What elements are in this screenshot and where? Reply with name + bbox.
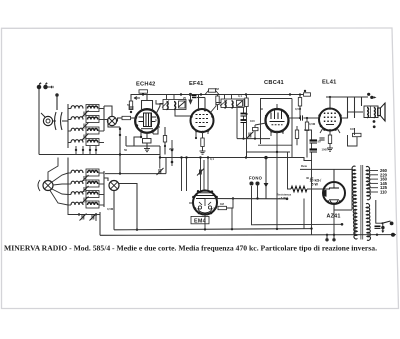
feedback feed wire [288, 152, 292, 189]
antenna terminal A2 [44, 83, 48, 89]
value labels scatter [107, 87, 355, 211]
svg-text:EL41: EL41 [322, 79, 337, 85]
bank2 vertical to mixer [67, 158, 69, 170]
detector trimmer C18 [247, 132, 254, 139]
switch fan wires [48, 158, 68, 206]
svg-text:1M: 1M [220, 202, 225, 206]
mains cap [375, 226, 381, 228]
osc padder resistor R16 [163, 136, 166, 143]
filter wires [300, 130, 352, 169]
svg-text:FONO: FONO [249, 176, 263, 181]
EM4 left stub [189, 202, 193, 204]
detector dots [242, 113, 256, 140]
EF41 pin dot [195, 137, 197, 139]
bank2 left rail wire [67, 169, 69, 210]
bank1 bottom junction dots [75, 149, 97, 151]
AZ41 bottom wire [334, 204, 352, 210]
mains switch S2 [376, 200, 394, 233]
IF2 top stubs [225, 95, 232, 100]
filter cap drop [311, 180, 313, 235]
grid trimmer C20 [197, 169, 204, 176]
svg-text:EM4: EM4 [194, 219, 206, 225]
bank2 row2 coil L12 [86, 180, 104, 187]
bank1 row4 coil L8 [86, 139, 104, 146]
IF2 can box [220, 99, 244, 108]
band switch S1 [38, 180, 53, 191]
cap C13 mid [157, 158, 164, 176]
detector base line [237, 138, 270, 140]
grid resistor R9 [305, 117, 308, 158]
harness vertical x166 [165, 158, 167, 174]
bus junction dots [142, 93, 291, 95]
tube AZ41 [323, 181, 345, 205]
bank2 row1 coil L9 [68, 170, 83, 173]
EL41 cathode resistor R10 [328, 135, 331, 144]
svg-text:50: 50 [124, 148, 128, 152]
bias rail y198 [205, 198, 287, 200]
bank2 trimmer C4 [82, 175, 89, 182]
EM4 right resistor R12 [214, 199, 234, 210]
terra terminal arrow [48, 86, 54, 89]
EL41 cathode ground [327, 144, 333, 152]
bus resistor R1 [139, 90, 148, 95]
svg-text:50: 50 [127, 103, 131, 107]
svg-text:110: 110 [380, 190, 387, 195]
ECH42 pin stubs [141, 131, 153, 138]
CBC41 pin stubs [271, 130, 283, 153]
tube CBC41 [265, 108, 289, 134]
ECH42 cathode resistor R2 [143, 139, 152, 144]
detector resistor R6 [245, 95, 248, 158]
mid rail y157 [160, 158, 312, 161]
ECH42 grid resistor R3 [129, 101, 132, 110]
bank1 left rail wire [67, 104, 69, 148]
svg-text:Rete: Rete [301, 164, 308, 168]
svg-text:5 W: 5 W [312, 182, 319, 186]
ECH42 grid wire [130, 99, 132, 101]
HV lead vertical [351, 169, 353, 210]
bottom rail outer [100, 234, 396, 237]
drops to rails [232, 152, 355, 235]
ECH42 cathode ground [144, 143, 150, 152]
output transformer T1 [364, 106, 378, 118]
svg-text:0,1: 0,1 [155, 118, 159, 122]
svg-text:ECH42: ECH42 [136, 82, 156, 88]
bank2 row1 coil L10 [86, 169, 104, 176]
bank2 row4 coil L16 [86, 201, 104, 208]
bank1 bottom stubs [76, 146, 96, 155]
ECH42 left cap C9 [128, 107, 133, 109]
bank1 row4 coil L7 [68, 140, 83, 143]
EF41 cathode ground [200, 147, 206, 155]
svg-text:MINERVA RADIO - Mod. 585/4 - M: MINERVA RADIO - Mod. 585/4 - Medie e due… [4, 245, 377, 253]
svg-text:50: 50 [318, 140, 322, 144]
AVC drop arrow [189, 93, 192, 103]
anode load resistor R14 [298, 93, 301, 118]
EL41 cathode cap C12 [319, 138, 324, 140]
rail junction dots [204, 227, 395, 236]
bank2 row3 coil L14 [86, 191, 104, 198]
feedback resistor R11 [348, 128, 362, 146]
bank2 trimmer C6 [82, 197, 89, 204]
AZ41 bottom to rail [333, 210, 335, 235]
bias end dot [286, 198, 289, 201]
CBC41 drop wire [247, 152, 293, 158]
IF2 secondary down [243, 108, 245, 114]
svg-text:1000: 1000 [322, 148, 329, 152]
terminal dots top right [367, 93, 376, 99]
dot CBC41 drop [276, 151, 278, 153]
AVC drop wire [264, 156, 267, 198]
svg-text:0,5M: 0,5M [107, 207, 114, 211]
svg-text:100: 100 [250, 119, 255, 123]
heater end dot [341, 223, 344, 226]
EF41 screen resistor R4 [216, 95, 219, 111]
EF41 top cap C19 [192, 96, 197, 98]
CBC41 shield loop [258, 99, 292, 153]
transformer T2 secondary lower [366, 204, 370, 241]
mains pin stubs [326, 235, 335, 241]
pot wires [104, 178, 137, 230]
bank2 bottom trimmer C7 [80, 214, 87, 221]
bank1 row3 coil L6 [86, 127, 104, 134]
ECH42 top stub [146, 95, 148, 101]
EF41 pin stubs [196, 130, 208, 138]
bank2 row4 coil L15 [68, 202, 83, 205]
harness vertical x172 [171, 140, 173, 166]
bank2 bottom trimmer C8 [90, 214, 97, 221]
EL41 cathode stub [320, 128, 340, 135]
bank2 bottom wire [68, 210, 96, 221]
bank1 row2 coil L4 [86, 116, 108, 123]
transformer core [361, 165, 363, 240]
dot ECH42 left [119, 111, 142, 138]
tuning gang circle 1 [107, 116, 116, 125]
bank2 trimmer C5 [82, 186, 89, 193]
ECH42 top loop [142, 101, 153, 111]
harness line y146 [126, 145, 160, 147]
svg-text:30 μF: 30 μF [306, 176, 314, 180]
IF1 can box [162, 100, 186, 110]
antenna terminal A1 [37, 83, 41, 89]
speaker bottom dots [373, 120, 376, 123]
detector drop [236, 108, 238, 139]
ECH42 grid feed resistor R3b [117, 116, 136, 119]
bank1 row2 coil L3 [68, 117, 83, 120]
ECH42 osc wires [134, 127, 165, 155]
volume pot circle [109, 181, 119, 191]
bank1 trimmer C3 [82, 134, 89, 141]
FONO terminals [250, 182, 259, 185]
EL41 anode to transformer [341, 112, 363, 118]
heater line [252, 186, 343, 225]
cap C14 electrolytic [310, 134, 318, 143]
EF41 anode wire [210, 103, 221, 114]
bank1 row1 coil L2 [86, 105, 104, 112]
grid stopper R8 [253, 123, 267, 139]
EL41 top dot [329, 96, 331, 98]
svg-text:0,5M: 0,5M [295, 107, 302, 111]
transformer T2 primary winding [352, 166, 357, 239]
rail end dot [256, 197, 258, 199]
harness vertical x126 [125, 136, 127, 146]
IF1 to ECH42 anode [156, 100, 163, 104]
bank2 row3 coil L13 [68, 192, 83, 195]
harness vertical x160 [159, 146, 161, 158]
ECH42 anode stub [156, 104, 164, 115]
dots on harness [119, 149, 174, 231]
FONO wires [257, 185, 259, 198]
wire to AZ41 [307, 188, 330, 190]
bank1 row1 coil L1 [68, 106, 83, 109]
gang section arcs [55, 94, 63, 130]
jack to coil wires [53, 120, 68, 122]
EF41 cathode resistor R5 [201, 138, 204, 147]
CBC41 top stub [276, 104, 278, 109]
dot osc [164, 145, 166, 147]
EL41 top stub [330, 97, 348, 118]
EM4 bottom stub [204, 215, 206, 230]
IF1 secondary down [175, 110, 192, 116]
tube EM4 [192, 189, 218, 215]
transformer T2 secondary winding [366, 167, 370, 200]
cap C15 electrolytic [310, 143, 318, 180]
harness vertical x120 [119, 127, 121, 174]
bank2 right rail [103, 171, 105, 207]
wires bank1 to ECH42 [104, 106, 120, 127]
svg-text:÷ 5 W √: ÷ 5 W √ [279, 196, 289, 200]
AVC arrow [134, 97, 140, 100]
bus end resistor R17 [304, 90, 311, 96]
detector cap C16 [241, 114, 247, 117]
feed verticals to EM4 [182, 158, 209, 193]
svg-text:EF41: EF41 [189, 81, 204, 87]
tube ECH42 [135, 108, 160, 133]
taps [368, 171, 378, 193]
outer rail left riser [96, 212, 100, 235]
bank2 row2 coil L11 [68, 181, 83, 184]
AZ41 top wire [333, 169, 335, 182]
label EM4 box [191, 216, 209, 223]
ground rail y154 [39, 154, 160, 156]
bank2 bottom dots [78, 213, 97, 215]
antenna jack ring [41, 113, 53, 126]
tube EF41 [190, 109, 214, 134]
wavy resistor R13 [291, 186, 307, 192]
antenna down wire [38, 89, 40, 155]
harness line y173.6 [105, 173, 166, 175]
EM4 grid dot [232, 197, 234, 199]
svg-text:CBC41: CBC41 [264, 80, 284, 86]
mid rail dots [159, 156, 247, 158]
tube EL41 [318, 107, 341, 131]
svg-text:0,1: 0,1 [238, 94, 242, 98]
detector cap C17 [241, 116, 247, 139]
IF1 top stubs [167, 95, 175, 100]
svg-text:200: 200 [169, 147, 174, 151]
coupling cap C11 [288, 115, 319, 120]
bank1 trimmer C1 [82, 111, 89, 118]
bank1 row3 coil L5 [68, 128, 83, 131]
EF41 top stubs [197, 95, 205, 111]
speaker LS [378, 103, 385, 121]
bottom rail inner [114, 229, 312, 230]
top bus wire [131, 95, 304, 100]
screen resistor R4b on bus [205, 89, 219, 95]
bias resistor R15 [295, 126, 298, 145]
bank1 trimmer C2 [82, 123, 89, 130]
speaker feed line [326, 97, 368, 118]
svg-text:0,5M: 0,5M [309, 122, 316, 126]
bank1 right rail [103, 106, 105, 131]
